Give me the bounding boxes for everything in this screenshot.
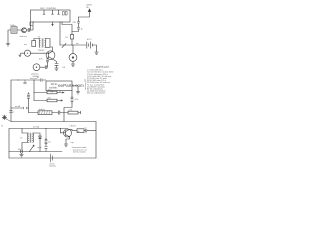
resistor R2 on feed (72, 28, 80, 32)
wire collector join (50, 47, 52, 51)
svg-text:10 mfd: 10 mfd (33, 126, 39, 128)
pin element 2 inside U1 (52, 10, 54, 14)
svg-text:cw: cw (84, 127, 87, 129)
svg-text:10k: 10k (48, 90, 51, 92)
ground G2 (95, 52, 99, 54)
top wire mid (11, 79, 46, 81)
svg-text:47k: 47k (39, 59, 43, 61)
svg-text:2N107: 2N107 (38, 50, 45, 52)
inner bottom rail (9, 151, 62, 153)
capacitor C10 series in wire (40, 79, 42, 82)
svg-text:47k: 47k (73, 22, 76, 24)
wire T1 left (34, 39, 40, 41)
resistor R9 (68, 111, 78, 114)
element cluster inside U1 (63, 12, 65, 16)
resistor R8 hatched (38, 111, 52, 115)
pin element 1 inside U1 (43, 10, 45, 14)
svg-text:T2: T2 (20, 138, 23, 140)
svg-text:.05: .05 (62, 67, 66, 69)
base wire (44, 52, 48, 54)
capacitor C5 on rail (9, 111, 12, 113)
IC box U1 (31, 10, 71, 22)
svg-text:.002: .002 (18, 149, 23, 151)
svg-text:PARTS LIST: PARTS LIST (96, 66, 110, 69)
capacitor C3 (55, 64, 58, 69)
svg-text:M1 0-1 milliammeter: M1 0-1 milliammeter (87, 92, 105, 95)
wire battery to ground (93, 45, 97, 52)
wire tuning to base (30, 52, 44, 54)
transistor Q2 (46, 51, 55, 60)
drop from box corner (71, 91, 73, 97)
wire Q1 to C1 (26, 29, 28, 31)
vertical collector rail (59, 22, 61, 45)
svg-text:.1: .1 (13, 112, 15, 114)
coil box L1 (32, 41, 36, 47)
phones box SP1 (77, 129, 84, 133)
variable capacitor VC1 (24, 50, 30, 56)
stub below U1 with arrow (52, 22, 53, 26)
diode D1 (33, 133, 40, 136)
collector to phones (69, 129, 77, 130)
transformer T2 (22, 129, 28, 134)
phone plug P1 (2, 115, 7, 120)
crystal Y1 (11, 27, 17, 33)
wire Y1 to Q1 (17, 29, 22, 31)
svg-text:xtal osc: xtal osc (20, 35, 28, 38)
wire rail y45 (60, 44, 86, 46)
battery B2 (50, 154, 52, 162)
capacitor C7 (45, 145, 48, 152)
resistor R1 on feed (77, 17, 79, 27)
svg-text:45 V: 45 V (87, 39, 92, 41)
box drops (52, 91, 60, 93)
capacitor C4 (45, 63, 47, 69)
svg-text:battery: battery (50, 165, 56, 168)
resistor R7 vertical left (27, 93, 29, 109)
ground G5 (76, 92, 80, 94)
transistor Q3 (64, 129, 72, 137)
svg-text:eeParts.com: eeParts.com (58, 83, 84, 88)
regulator box U2 (46, 81, 72, 91)
resistor R6 (47, 99, 57, 102)
row1 wire (34, 92, 63, 94)
outer bottom rail (9, 157, 96, 159)
ground G4 (55, 68, 59, 70)
earphone J1 (33, 64, 40, 71)
wire Y1 left to ground (8, 30, 11, 44)
svg-text:22k: 22k (48, 98, 51, 100)
wire U1 right drop (62, 22, 72, 32)
svg-text:100 kc marker: 100 kc marker (73, 152, 86, 154)
wire U1 bottom to tank (30, 22, 33, 26)
svg-text:B: B (2, 126, 4, 128)
ground G7 (20, 153, 24, 157)
wire VC1 left stub (20, 53, 25, 55)
wire phones to rail (84, 130, 96, 132)
battery B1 (87, 42, 93, 48)
junction node B+ rail (71, 44, 72, 45)
junction dot U1 bottom pin3 (62, 22, 63, 23)
capacitor C9 series (86, 129, 87, 132)
switch S1 arrow (30, 145, 34, 151)
pin element 3 inside U1 (58, 10, 60, 14)
resistor R3 bias (46, 58, 48, 63)
svg-text:ph: ph (78, 131, 80, 133)
wire J1 right (40, 66, 45, 68)
transformer T1 (38, 39, 41, 48)
capacitor C2 bypass (70, 35, 73, 40)
svg-text:from osc: from osc (30, 77, 37, 80)
top rail bottom circuit (9, 128, 68, 130)
resistor R10 (45, 138, 47, 145)
emitter down (66, 137, 70, 144)
wire U2 right (72, 86, 78, 92)
wire y112.5 (29, 112, 59, 114)
svg-text:4.7k: 4.7k (75, 99, 79, 101)
svg-text:1m: 1m (48, 142, 51, 144)
ground G3 (71, 64, 75, 66)
base wire Q3 (61, 129, 66, 133)
left rail bottom (8, 129, 10, 159)
row2 wire (34, 100, 61, 102)
wire box-left drop (29, 22, 31, 30)
capacitor C1 series (28, 26, 33, 32)
svg-text:1k: 1k (81, 29, 83, 31)
resistor R5 vertical (71, 96, 73, 103)
wire R5 down corner (64, 103, 72, 121)
svg-text:on-off: on-off (15, 106, 21, 108)
svg-text:CK722: CK722 (70, 125, 77, 127)
dashes near switch (38, 147, 41, 149)
wire meter top (72, 45, 74, 54)
wire T1 right top (45, 39, 50, 48)
right rail (95, 122, 97, 159)
svg-text:.01: .01 (65, 37, 69, 39)
capacitor C6 (58, 111, 64, 114)
capacitor stub under top wire (24, 80, 27, 84)
ground G1 (6, 44, 10, 46)
wire right to rail (11, 121, 96, 123)
emitter chain (53, 59, 57, 63)
caption (72, 146, 88, 154)
svg-text:cap: cap (71, 142, 75, 144)
svg-text:osc. module: osc. module (40, 7, 57, 10)
terminal arrow (88, 9, 91, 12)
svg-text:T1: T1 (38, 36, 41, 38)
meter M1 (69, 54, 77, 62)
wire C2 down to node (71, 32, 73, 46)
resistor R4 (47, 91, 57, 94)
wire meter bottom (72, 61, 74, 64)
ground G6 (64, 144, 68, 146)
svg-text:100kc: 100kc (10, 25, 17, 27)
capacitor C8 series in rail (21, 150, 23, 153)
svg-text:ballast: ballast (39, 108, 45, 111)
feed vertical to rows (33, 80, 35, 93)
junction dot U1 bottom pin (33, 22, 34, 23)
svg-text:ant: ant (24, 43, 27, 46)
switch S2 slash (62, 44, 66, 48)
wire y108 (11, 107, 29, 109)
svg-text:2.2k: 2.2k (69, 110, 73, 112)
transistor Q1 small (22, 28, 27, 33)
left rail mid (10, 80, 12, 122)
